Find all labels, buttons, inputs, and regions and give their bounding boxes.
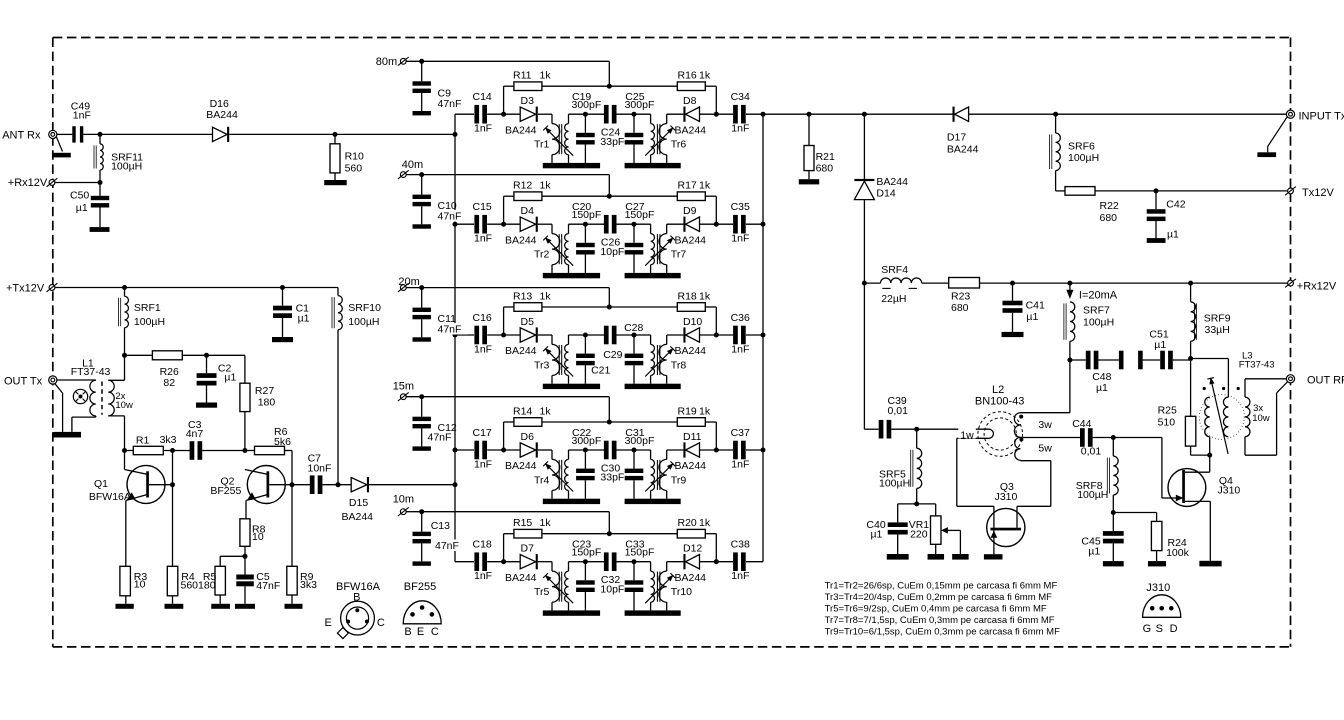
svg-text:C38: C38 <box>731 539 750 551</box>
svg-text:C44: C44 <box>1072 418 1091 430</box>
svg-text:R13: R13 <box>513 291 532 303</box>
svg-text:µ1: µ1 <box>1088 546 1100 558</box>
svg-text:SRF7: SRF7 <box>1083 305 1110 317</box>
svg-text:33pF: 33pF <box>600 472 624 484</box>
svg-text:C48: C48 <box>1092 371 1111 383</box>
svg-text:3w: 3w <box>1038 419 1052 431</box>
svg-text:1k: 1k <box>540 406 552 418</box>
svg-text:47nF: 47nF <box>256 580 280 592</box>
svg-text:D11: D11 <box>683 431 702 443</box>
svg-text:0,01: 0,01 <box>1081 446 1102 458</box>
svg-text:BA244: BA244 <box>675 124 707 136</box>
svg-text:10w: 10w <box>115 400 133 411</box>
svg-text:47nF: 47nF <box>435 540 459 552</box>
svg-text:1nF: 1nF <box>474 123 492 135</box>
svg-text:150pF: 150pF <box>572 547 602 559</box>
svg-text:C18: C18 <box>473 539 492 551</box>
svg-text:D5: D5 <box>521 316 535 328</box>
svg-text:20m: 20m <box>398 276 419 288</box>
svg-text:100µH: 100µH <box>1068 152 1099 164</box>
svg-text:1k: 1k <box>540 291 552 303</box>
svg-text:Tr4: Tr4 <box>534 475 550 487</box>
svg-text:1nF: 1nF <box>731 233 749 245</box>
svg-text:BFW16A: BFW16A <box>89 491 131 503</box>
svg-text:R12: R12 <box>513 180 532 192</box>
svg-text:FT37-43: FT37-43 <box>71 366 111 378</box>
svg-text:R14: R14 <box>513 406 532 418</box>
svg-text:BN100-43: BN100-43 <box>975 395 1025 407</box>
svg-text:1k: 1k <box>699 406 711 418</box>
svg-text:Tr8: Tr8 <box>671 360 687 372</box>
svg-text:BA244: BA244 <box>505 572 537 584</box>
svg-text:47nF: 47nF <box>438 98 462 110</box>
svg-text:D6: D6 <box>521 431 535 443</box>
svg-text:Tr2: Tr2 <box>534 249 550 261</box>
svg-text:BA244: BA244 <box>505 460 537 472</box>
svg-text:R20: R20 <box>678 517 697 529</box>
svg-text:22µH: 22µH <box>881 293 906 305</box>
svg-text:Tr7: Tr7 <box>671 249 687 261</box>
svg-text:I=20mA: I=20mA <box>1079 290 1118 302</box>
svg-text:J310: J310 <box>995 491 1018 503</box>
svg-text:1k: 1k <box>699 291 711 303</box>
svg-text:3k3: 3k3 <box>160 434 177 446</box>
svg-text:220: 220 <box>910 529 928 541</box>
svg-text:R15: R15 <box>513 517 532 529</box>
svg-text:R10: R10 <box>345 151 364 163</box>
svg-text:1nF: 1nF <box>731 123 749 135</box>
svg-text:1nF: 1nF <box>474 233 492 245</box>
svg-text:BA244: BA244 <box>342 511 374 523</box>
svg-text:FT37-43: FT37-43 <box>1239 360 1275 371</box>
svg-text:D15: D15 <box>349 497 368 509</box>
svg-text:Tr10: Tr10 <box>671 586 692 598</box>
svg-text:3k3: 3k3 <box>300 579 317 591</box>
svg-text:+Rx12V: +Rx12V <box>1297 281 1337 293</box>
svg-text:33pF: 33pF <box>600 136 624 148</box>
svg-text:100µH: 100µH <box>879 478 910 490</box>
svg-text:+Tx12V: +Tx12V <box>6 283 45 295</box>
svg-text:R5: R5 <box>203 571 217 583</box>
svg-text:1k: 1k <box>540 180 552 192</box>
svg-text:BA244: BA244 <box>505 124 537 136</box>
svg-text:R16: R16 <box>678 70 697 82</box>
svg-text:33µH: 33µH <box>1205 324 1230 336</box>
svg-text:15m: 15m <box>393 380 414 392</box>
svg-text:OUT Tx: OUT Tx <box>4 376 43 388</box>
svg-text:C41: C41 <box>1026 300 1045 312</box>
svg-text:C28: C28 <box>624 322 643 334</box>
svg-text:1nF: 1nF <box>73 110 91 122</box>
svg-text:C16: C16 <box>473 312 492 324</box>
svg-text:1nF: 1nF <box>731 570 749 582</box>
svg-text:Tr3: Tr3 <box>534 360 550 372</box>
svg-text:C17: C17 <box>473 427 492 439</box>
svg-text:+Rx12V: +Rx12V <box>8 177 48 189</box>
svg-text:Tr9: Tr9 <box>671 475 687 487</box>
svg-text:Tr1=Tr2=26/6sp, CuEm 0,15mm pe: Tr1=Tr2=26/6sp, CuEm 0,15mm pe carcasa f… <box>825 580 1058 591</box>
svg-text:C36: C36 <box>731 312 750 324</box>
svg-text:47nF: 47nF <box>428 432 452 444</box>
svg-text:R19: R19 <box>678 406 697 418</box>
svg-text:C50: C50 <box>70 190 89 202</box>
svg-text:BF255: BF255 <box>404 581 436 593</box>
svg-text:5w: 5w <box>1038 443 1052 455</box>
svg-text:47nF: 47nF <box>438 324 462 336</box>
svg-text:1k: 1k <box>699 70 711 82</box>
svg-text:SRF9: SRF9 <box>1204 313 1231 325</box>
svg-text:E: E <box>325 617 332 629</box>
svg-text:C34: C34 <box>731 91 750 103</box>
svg-text:BA244: BA244 <box>947 144 979 156</box>
svg-text:R23: R23 <box>951 291 970 303</box>
svg-text:µ1: µ1 <box>76 202 88 214</box>
svg-text:150pF: 150pF <box>625 209 655 221</box>
svg-text:40m: 40m <box>402 159 423 171</box>
svg-text:80m: 80m <box>376 56 397 68</box>
svg-text:R25: R25 <box>1158 405 1177 417</box>
svg-text:100µH: 100µH <box>111 161 142 173</box>
svg-text:680: 680 <box>1100 212 1118 224</box>
svg-text:1nF: 1nF <box>474 344 492 356</box>
svg-text:R22: R22 <box>1100 200 1119 212</box>
svg-text:1nF: 1nF <box>474 570 492 582</box>
svg-text:D4: D4 <box>521 205 535 217</box>
svg-text:510: 510 <box>1158 417 1176 429</box>
svg-text:ANT Rx: ANT Rx <box>2 130 41 142</box>
svg-text:1nF: 1nF <box>731 459 749 471</box>
svg-text:C13: C13 <box>431 520 450 532</box>
svg-text:BA244: BA244 <box>505 345 537 357</box>
svg-text:L2: L2 <box>992 384 1004 396</box>
svg-text:300pF: 300pF <box>625 99 655 111</box>
svg-text:10w: 10w <box>1252 413 1270 424</box>
svg-text:SRF1: SRF1 <box>134 302 161 314</box>
svg-text:C: C <box>431 626 439 638</box>
svg-text:R27: R27 <box>255 385 274 397</box>
svg-text:J310: J310 <box>1218 485 1241 497</box>
svg-text:100µH: 100µH <box>134 316 165 328</box>
svg-text:100µH: 100µH <box>348 316 379 328</box>
svg-text:10pF: 10pF <box>600 246 624 258</box>
svg-text:µ1: µ1 <box>1096 382 1108 394</box>
svg-text:150pF: 150pF <box>572 209 602 221</box>
svg-text:BA244: BA244 <box>675 572 707 584</box>
svg-text:150pF: 150pF <box>625 547 655 559</box>
svg-text:1w: 1w <box>960 430 974 442</box>
svg-text:BF255: BF255 <box>210 485 241 497</box>
svg-text:Tr3=Tr4=20/4sp, CuEm 0,2mm pe: Tr3=Tr4=20/4sp, CuEm 0,2mm pe carcasa fi… <box>825 592 1053 603</box>
svg-text:100k: 100k <box>1166 547 1190 559</box>
svg-text:D9: D9 <box>683 205 697 217</box>
svg-text:10nF: 10nF <box>308 462 332 474</box>
svg-text:BA244: BA244 <box>675 460 707 472</box>
svg-text:µ1: µ1 <box>224 372 236 384</box>
svg-text:180: 180 <box>258 397 276 409</box>
svg-text:µ1: µ1 <box>298 313 310 325</box>
svg-text:82: 82 <box>163 377 175 389</box>
svg-text:5k6: 5k6 <box>274 436 291 448</box>
svg-text:µ1: µ1 <box>1154 339 1166 351</box>
svg-text:SRF10: SRF10 <box>348 302 381 314</box>
svg-text:100µH: 100µH <box>1083 317 1114 329</box>
svg-text:Tr6: Tr6 <box>671 139 687 151</box>
svg-text:OUT RF: OUT RF <box>1307 375 1344 387</box>
svg-text:10m: 10m <box>393 494 414 506</box>
svg-text:µ1: µ1 <box>1026 311 1038 323</box>
svg-text:1k: 1k <box>699 517 711 529</box>
svg-text:0,01: 0,01 <box>888 405 909 417</box>
svg-text:1k: 1k <box>540 70 552 82</box>
svg-text:C35: C35 <box>731 201 750 213</box>
svg-text:INPUT Tx: INPUT Tx <box>1299 110 1344 122</box>
svg-text:C15: C15 <box>473 201 492 213</box>
svg-text:Tr5: Tr5 <box>534 586 550 598</box>
svg-text:300pF: 300pF <box>572 435 602 447</box>
svg-text:BA244: BA244 <box>675 234 707 246</box>
svg-text:D8: D8 <box>683 95 697 107</box>
svg-text:1k: 1k <box>699 180 711 192</box>
svg-text:Tr5=Tr6=9/2sp, CuEm 0,4mm pe c: Tr5=Tr6=9/2sp, CuEm 0,4mm pe carcasa fi … <box>825 604 1047 615</box>
svg-text:10pF: 10pF <box>600 583 624 595</box>
svg-text:BA244: BA244 <box>206 109 238 121</box>
svg-text:D: D <box>1170 623 1178 635</box>
svg-text:SRF6: SRF6 <box>1068 141 1095 153</box>
svg-text:C42: C42 <box>1166 199 1185 211</box>
svg-text:4n7: 4n7 <box>186 428 204 440</box>
svg-text:B: B <box>353 592 360 604</box>
svg-text:300pF: 300pF <box>572 99 602 111</box>
svg-text:10: 10 <box>134 579 146 591</box>
svg-text:BA244: BA244 <box>675 345 707 357</box>
svg-text:C21: C21 <box>591 365 610 377</box>
svg-text:1nF: 1nF <box>474 459 492 471</box>
svg-text:S: S <box>1156 623 1163 635</box>
svg-text:D3: D3 <box>521 95 535 107</box>
svg-text:Q1: Q1 <box>94 478 108 490</box>
svg-text:J310: J310 <box>1146 582 1170 594</box>
svg-text:1nF: 1nF <box>731 344 749 356</box>
svg-text:560: 560 <box>345 163 363 175</box>
svg-text:680: 680 <box>816 163 834 175</box>
svg-text:SRF4: SRF4 <box>881 264 908 276</box>
svg-text:R18: R18 <box>678 291 697 303</box>
svg-text:B: B <box>404 626 411 638</box>
svg-text:µ1: µ1 <box>1167 229 1179 241</box>
svg-text:µ1: µ1 <box>871 529 883 541</box>
svg-text:C37: C37 <box>731 427 750 439</box>
svg-text:47nF: 47nF <box>438 211 462 223</box>
svg-text:G: G <box>1143 623 1152 635</box>
svg-text:R21: R21 <box>816 151 835 163</box>
svg-text:680: 680 <box>951 302 969 314</box>
svg-text:C: C <box>377 617 385 629</box>
svg-text:E: E <box>417 626 424 638</box>
svg-text:Tx12V: Tx12V <box>1302 187 1334 199</box>
svg-text:C29: C29 <box>603 349 622 361</box>
svg-text:1k: 1k <box>540 517 552 529</box>
svg-text:BA244: BA244 <box>505 234 537 246</box>
svg-text:10: 10 <box>252 531 264 543</box>
svg-text:Tr9=Tr10=6/1,5sp, CuEm 0,3mm p: Tr9=Tr10=6/1,5sp, CuEm 0,3mm pe carcasa … <box>825 627 1060 638</box>
svg-text:R1: R1 <box>136 435 150 447</box>
svg-text:D17: D17 <box>947 131 966 143</box>
svg-text:D14: D14 <box>876 188 895 200</box>
svg-text:D12: D12 <box>683 543 702 555</box>
svg-text:R11: R11 <box>513 70 532 82</box>
svg-text:D10: D10 <box>683 316 702 328</box>
svg-text:BA244: BA244 <box>876 176 908 188</box>
svg-text:100µH: 100µH <box>1077 489 1108 501</box>
svg-text:D7: D7 <box>521 543 535 555</box>
svg-text:R17: R17 <box>678 180 697 192</box>
svg-text:Tr7=Tr8=7/1,5sp, CuEm 0,3mm pe: Tr7=Tr8=7/1,5sp, CuEm 0,3mm pe carcasa f… <box>825 615 1055 626</box>
svg-text:Tr1: Tr1 <box>534 139 550 151</box>
svg-text:300pF: 300pF <box>625 435 655 447</box>
svg-text:C14: C14 <box>473 91 492 103</box>
